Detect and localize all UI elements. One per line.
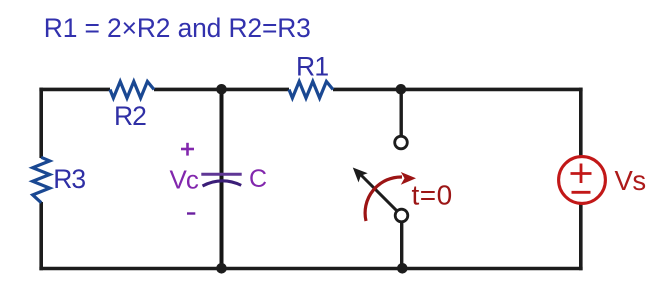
junction dot bottom capacitor node (216, 263, 227, 274)
wire left vertical lower (39, 202, 43, 270)
capacitor C bottom plate (curved) (203, 181, 242, 186)
label plus (capacitor polarity) (181, 143, 194, 156)
wire capacitor branch vertical (220, 89, 224, 268)
resistor R2 zigzag (110, 82, 154, 99)
switch motion arrow (red arc) (365, 177, 402, 221)
source plus symbol (571, 164, 592, 184)
label minus (capacitor polarity) (187, 212, 195, 214)
wire switch branch lower (400, 222, 403, 269)
wire top right (R1 to right corner) (333, 88, 583, 92)
wire right vertical lower (579, 203, 583, 270)
switch arm arrowhead (353, 168, 368, 183)
wire switch branch upper (400, 89, 403, 135)
wire top middle (R2 to R1) (154, 88, 289, 92)
junction dot bottom switch node (397, 263, 408, 274)
switch arm (359, 173, 396, 210)
svg-text:t=0: t=0 (412, 180, 453, 211)
svg-text:R2: R2 (114, 101, 146, 131)
resistor R3 zigzag (vertical) (33, 157, 50, 202)
wire bottom horizontal (39, 267, 582, 271)
switch motion arrowhead (401, 172, 416, 185)
wire top-left horizontal (left corner to R2) (39, 88, 110, 92)
svg-text:R3: R3 (53, 164, 85, 194)
wire left vertical upper (39, 88, 43, 158)
source Vs circle (559, 157, 606, 204)
svg-text:R1 = 2×R2 and R2=R3: R1 = 2×R2 and R2=R3 (44, 13, 311, 43)
source minus symbol (572, 191, 591, 194)
svg-text:R1: R1 (296, 52, 328, 82)
switch top terminal circle (395, 136, 408, 149)
wire right vertical upper (579, 88, 583, 157)
capacitor C top plate (201, 173, 241, 176)
switch bottom terminal circle (395, 209, 408, 222)
junction dot top capacitor node (216, 84, 227, 95)
svg-text:Vc: Vc (170, 165, 199, 195)
svg-text:C: C (249, 165, 267, 193)
resistor R1 zigzag (289, 82, 333, 99)
svg-text:Vs: Vs (615, 165, 646, 196)
junction dot top switch node (396, 84, 407, 95)
